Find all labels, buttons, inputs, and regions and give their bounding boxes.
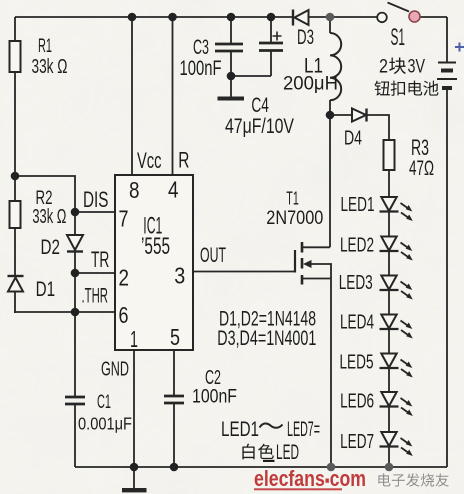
junction pin8 riser top rail [128,13,137,22]
svg-text:.THR: .THR [82,285,109,308]
svg-text:T1: T1 [286,189,299,209]
wire LED7 to ground rail [388,446,390,467]
svg-text:1: 1 [130,326,138,352]
svg-text:R: R [178,148,189,173]
junction C2 ground rail [170,463,179,472]
resistor R2 [10,201,21,228]
LED3 [381,276,396,290]
svg-text:200μH: 200μH [283,73,338,95]
svg-text:2: 2 [119,265,130,291]
battery plus sign [455,43,464,52]
svg-text:S1: S1 [391,24,406,51]
svg-text:6: 6 [119,302,129,328]
LED1 [381,197,396,211]
wire OUT pin 3 to gate [193,271,295,273]
wire LED5 to LED6 [388,368,390,392]
wire node A branch to DIS column [15,176,75,212]
junction L1 top rail [326,13,335,22]
svg-text:LED1: LED1 [341,193,375,216]
junction pin4 riser top rail [168,13,177,22]
resistor R3 [384,140,395,170]
wire bottom ground rail [75,466,447,468]
svg-text:2: 2 [379,57,388,78]
svg-text:LED2: LED2 [340,234,374,257]
svg-text:GND: GND [101,358,129,381]
label battery 钮扣电池 [374,81,389,96]
capacitor C3 [215,44,243,51]
wire C4 branch [270,17,272,76]
wire pin 4 R riser [172,17,174,175]
diode D4 [352,109,366,122]
svg-text:7: 7 [119,205,129,231]
wire DIS column through D2 to TR [74,212,76,273]
svg-text:D3: D3 [297,25,314,49]
junction source ground rail [327,463,336,472]
svg-text:5: 5 [170,324,180,350]
wire LED1 to LED2 [388,212,390,237]
wire THR node down through C1 to ground rail [74,312,76,467]
wire TR node down to THR node [74,273,76,312]
svg-text:D3,D4=1N4001: D3,D4=1N4001 [217,327,316,350]
svg-text:33k Ω: 33k Ω [32,205,66,228]
junction node B [326,111,335,120]
note LED type line 2 白色LED [242,444,254,460]
junction C3 top rail [227,13,236,22]
LED4 [381,315,396,329]
wire node B to D4 [330,114,352,116]
svg-text:LED4: LED4 [340,310,374,333]
svg-text:3V: 3V [408,57,426,78]
svg-text:D1: D1 [36,278,56,301]
svg-text:R1: R1 [38,35,52,57]
wire pin 1 GND drop [133,350,135,467]
svg-text:elecfans▪com: elecfans▪com [254,466,366,491]
wire C3 branch [230,17,232,76]
LED6 [381,392,396,406]
svg-text:LED: LED [276,441,299,464]
svg-text:LED1: LED1 [221,417,259,441]
svg-text:LED7=: LED7= [287,417,320,441]
svg-text:100nF: 100nF [192,386,237,408]
resistor R1 [10,41,21,72]
wire LED4 to LED5 [388,329,390,354]
wire THR horizontal to pin 6 [14,311,115,313]
transistor T1 MOSFET [294,250,296,273]
svg-text:LED3: LED3 [339,271,373,294]
svg-text:D4: D4 [344,127,362,150]
battery B1 2x3V button cells [438,62,456,64]
capacitor C1 [65,397,85,404]
watermark 电子发烧友 [378,473,390,486]
wire node B down to MOSFET drain [329,115,331,247]
svg-text:’555: ’555 [141,233,170,260]
wire R3 to LED1 [388,170,390,197]
svg-text:LED6: LED6 [340,389,374,412]
svg-text:0.001μF: 0.001μF [78,414,132,434]
wire pin 5 drop through C2 [173,350,175,467]
LED7 [381,432,396,446]
svg-text:C1: C1 [97,392,111,413]
diode D1 [8,278,23,292]
svg-text:100nF: 100nF [180,56,222,80]
ground main below pin 1 [133,467,135,488]
junction node THR [71,308,80,317]
ground at C3/C4 branch [230,76,232,97]
wire right return column [446,89,448,467]
wire DIS stub to pin 7 [75,211,115,213]
switch S1 [388,3,410,12]
svg-text:47μF/10V: 47μF/10V [225,114,294,138]
C4 polarity plus [273,32,282,41]
svg-text:DIS: DIS [83,187,109,212]
wire top supply rail [15,16,447,18]
junction ground rail pin1 [130,463,139,472]
wire L1 column top [329,17,331,33]
wire TR stub to pin 2 [75,272,115,274]
svg-text:4: 4 [168,177,179,203]
svg-text:47Ω: 47Ω [409,156,434,180]
wire pin 8 Vcc riser [131,17,133,175]
wire C3/C4 bottom link [231,75,271,77]
wire LED6 to LED7 [388,407,390,433]
capacitor C4 electrolytic [259,43,283,51]
svg-text:TR: TR [91,247,109,272]
wire left column through R1, R2, D1 [14,17,16,313]
wire right battery branch top [446,17,448,62]
diode D3 [295,10,309,25]
diode D2 [67,235,83,250]
svg-text:2N7000: 2N7000 [266,207,323,229]
svg-text:3: 3 [174,263,185,289]
LED5 [381,354,396,368]
junction C4 top rail [267,13,276,22]
svg-text:D2: D2 [41,236,61,259]
wire MOSFET source down to ground rail [330,279,332,468]
inductor L1 [330,33,341,100]
svg-text:OUT: OUT [200,244,226,267]
wire LED2 to LED3 [388,251,390,276]
junction node DIS [71,208,80,217]
svg-text:LED5: LED5 [340,351,374,374]
wire D4 to R3 top [367,115,390,140]
svg-text:LED7: LED7 [340,430,374,453]
svg-text:8: 8 [129,177,140,203]
LED2 [381,237,396,251]
junction LED7 ground rail [385,463,394,472]
wire LED3 to LED4 [388,290,390,315]
svg-text:33k Ω: 33k Ω [32,55,68,78]
junction node A [11,172,20,181]
junction node TR [71,269,80,278]
capacitor C2 [164,396,184,403]
IC1 555 timer box [115,175,193,350]
svg-text:Vcc: Vcc [137,148,162,173]
wire L1 bottom to node B [329,100,331,115]
junction C3 C4 bottom [227,72,236,81]
